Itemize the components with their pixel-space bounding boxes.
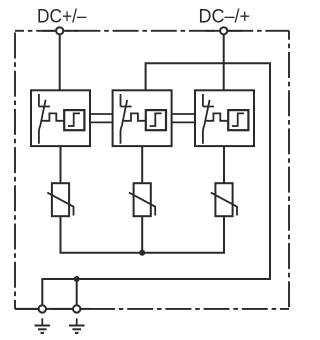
varistor RV1 [47,183,73,216]
ground bus to PE terminals [42,279,270,305]
wire DC+ terminal to U1 top [59,33,61,91]
mechanical coupling lines U2-U3 [172,114,195,122]
ground symbol 2 [69,318,85,333]
junction ground bus [74,276,80,282]
junction star point [139,250,145,256]
SPD module U3 (disconnector + trigger unit) [195,90,254,146]
label DC+/- [37,6,87,28]
terminal X1 DC+/- [56,27,63,34]
wire RV2 bottom to star point [141,216,143,253]
wire U3 bottom to RV3 [223,146,225,184]
SPD module U1 (disconnector + trigger unit) [31,90,90,146]
PE terminal 2 [73,305,80,312]
SPD module U2 (disconnector + trigger unit) [113,90,172,146]
mechanical coupling lines U1-U2 [90,114,113,122]
varistor RV3 [211,183,237,216]
svg-text:DC–/+: DC–/+ [199,6,251,28]
ground symbol 1 [35,318,51,333]
svg-text:DC+/–: DC+/– [37,6,87,28]
wire solid border segment at X1 [42,30,78,32]
PE terminal 1 [39,305,46,312]
label DC-/+ [199,6,251,28]
wire U2 bottom to RV2 [141,146,143,184]
wire middle branch: U2 top up and over to right-side down-lead to ground bus [146,63,270,280]
wire DC- terminal to U3 top [223,33,225,91]
terminal X2 DC-/+ [220,27,227,34]
enclosure boundary (dash-dot device outline) [15,31,289,309]
wire solid border segment at X2 [206,30,243,32]
wire junction to PE terminal 2 [76,279,78,305]
star-point bus joining RV1 RV2 RV3 bottoms [61,216,225,253]
solid border segment through PE terminals [15,308,91,310]
varistor RV2 [129,183,155,216]
wire U1 bottom to RV1 [60,146,62,184]
